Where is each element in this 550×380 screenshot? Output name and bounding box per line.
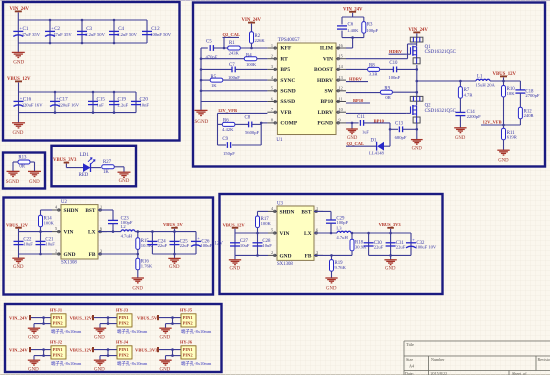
wire right end row2 — [135, 92, 137, 113]
svg-text:HDRV: HDRV — [389, 49, 403, 54]
svg-text:VBUS_12V: VBUS_12V — [70, 348, 93, 353]
svg-text:BP10: BP10 — [353, 98, 364, 103]
svg-text:22uF: 22uF — [396, 244, 406, 249]
svg-text:VBUS_3V3: VBUS_3V3 — [379, 222, 402, 227]
svg-text:1K: 1K — [103, 170, 109, 175]
wire VIN pin to Q1 drain — [346, 58, 408, 60]
svg-text:PIN1: PIN1 — [53, 347, 64, 352]
buck IC U3 SX1308 body — [277, 206, 314, 260]
svg-text:VBUS_5V: VBUS_5V — [163, 222, 184, 227]
wire LX segment (U3) — [314, 232, 337, 234]
pin 4 SHDN — [268, 210, 277, 212]
svg-text:PIN1: PIN1 — [183, 315, 194, 320]
block border: LED box — [52, 146, 137, 187]
wire R13 left lead — [13, 161, 18, 163]
wire to ground — [33, 356, 35, 360]
svg-text:端子孔-8x10mm: 端子孔-8x10mm — [117, 360, 148, 367]
svg-text:10K: 10K — [507, 91, 516, 96]
wire PIN1-PIN2 strap — [107, 318, 109, 324]
pin 10 LDRV — [336, 111, 346, 113]
resistor R18 30.9K — [351, 233, 353, 239]
svg-text:VBUS_12V: VBUS_12V — [223, 223, 246, 228]
wire R17 to VIN rail — [257, 228, 259, 233]
pin 6 SS/SD — [267, 101, 277, 103]
wire C21 drop — [40, 232, 42, 254]
wire VBUS right branch — [519, 81, 521, 90]
svg-text:R27: R27 — [103, 160, 112, 165]
svg-text:PIN2: PIN2 — [53, 321, 64, 326]
wire SGND pin segment — [201, 90, 267, 92]
svg-text:端子孔-8x10mm: 端子孔-8x10mm — [181, 328, 212, 335]
svg-text:PIN2: PIN2 — [119, 321, 130, 326]
pin 16 ILIM — [336, 47, 346, 49]
svg-text:2: 2 — [271, 250, 273, 255]
wire to ground — [165, 356, 167, 360]
ground (U3 out) — [384, 259, 396, 261]
pin 5 VIN — [268, 232, 277, 234]
wire R11 to GND — [503, 140, 505, 150]
wire PIN1-PIN2 strap — [172, 350, 174, 356]
ground (HY-J4) — [94, 359, 106, 361]
wire BP5 segment — [201, 68, 232, 70]
svg-text:C5: C5 — [206, 39, 212, 44]
wire FB segment (U3) — [314, 254, 352, 256]
wire SYNC segment — [201, 79, 210, 81]
pin 15 VIN — [336, 58, 346, 60]
wire Q2 source to GND — [416, 123, 418, 139]
svg-text:HY-J5: HY-J5 — [180, 308, 193, 313]
ground (R16) — [132, 277, 144, 279]
wire L1 to VBUS — [490, 80, 520, 82]
svg-text:11: 11 — [339, 96, 343, 101]
svg-text:8: 8 — [271, 118, 273, 123]
svg-text:L2: L2 — [121, 224, 127, 229]
svg-text:10uF: 10uF — [240, 243, 250, 248]
svg-text:5: 5 — [271, 86, 273, 91]
svg-text:HY-J3: HY-J3 — [116, 308, 129, 313]
resistor R6 4.42K — [222, 122, 235, 126]
resistor R12 240R — [518, 107, 522, 119]
wire PIN2 row — [34, 323, 51, 325]
wire R10 to FB node — [503, 97, 505, 125]
svg-text:VIN: VIN — [64, 230, 74, 236]
wire PIN1 row — [94, 317, 117, 319]
ground GND (R13) — [28, 170, 41, 172]
pin 3 FB — [314, 254, 323, 256]
svg-text:10uF: 10uF — [45, 241, 55, 246]
wire C18 to R12 — [519, 93, 521, 107]
wire BST segment (U2) — [98, 209, 113, 211]
svg-text:LL4148: LL4148 — [369, 151, 385, 156]
junction C30 — [367, 232, 370, 235]
svg-text:22uF: 22uF — [374, 244, 384, 249]
svg-text:4.42K: 4.42K — [222, 127, 234, 132]
svg-text:BST: BST — [85, 208, 96, 214]
svg-text:U3: U3 — [277, 201, 283, 206]
wire network to ILIM pin — [352, 38, 354, 48]
capacitor C31 22uF — [390, 233, 392, 255]
svg-text:C6: C6 — [348, 22, 354, 27]
wire PIN1-PIN2 strap — [107, 350, 109, 356]
header body HY-J6 — [181, 346, 196, 359]
svg-text:R9: R9 — [384, 86, 390, 91]
title block frame — [404, 341, 550, 375]
sheet bottom edge — [0, 374, 550, 376]
svg-text:SW: SW — [324, 89, 333, 95]
svg-text:5600pF: 5600pF — [245, 130, 260, 135]
pin 1 KFF — [267, 47, 277, 49]
wire L2 to output node — [135, 231, 138, 233]
svg-text:VIN: VIN — [280, 231, 290, 237]
wire to GND (U2 out) — [174, 254, 176, 258]
capacitor C5 470pF — [209, 45, 211, 51]
svg-text:C16: C16 — [23, 96, 32, 102]
ground (Q2/C13) — [411, 139, 423, 141]
wire LED to R27 — [91, 167, 102, 169]
wire C13 to Q2 source drop — [403, 128, 417, 130]
resistor R27 1K — [102, 165, 115, 169]
svg-text:SGND: SGND — [6, 180, 20, 185]
ground (HY-J1) — [28, 327, 40, 329]
wire PIN1 row — [31, 317, 51, 319]
header body HY-J3 — [117, 314, 132, 327]
wire to GND symbol (U3 input) — [234, 255, 236, 259]
svg-text:SYNC: SYNC — [280, 78, 295, 84]
pin 1 BST — [314, 210, 323, 212]
svg-text:30.9K: 30.9K — [355, 244, 367, 249]
wire COMP vertical — [260, 123, 262, 145]
wire SW pin segment — [346, 92, 380, 94]
capacitor C1 47uF 35V — [13, 30, 23, 32]
resistor R1 243K — [228, 46, 241, 50]
wire to GND symbol (U2 input) — [18, 254, 20, 258]
wire port to VIN rail (U3) — [234, 229, 236, 233]
svg-text:2.2uF 50V: 2.2uF 50V — [117, 32, 137, 37]
svg-text:VFB: VFB — [280, 110, 291, 116]
svg-text:3: 3 — [316, 250, 318, 255]
svg-text:R5: R5 — [211, 75, 217, 80]
block border: 3V3 buck box — [220, 194, 443, 294]
wire to ground — [33, 324, 35, 328]
wire bottom rail row2 — [19, 112, 137, 114]
wire PIN1-PIN2 strap — [43, 350, 45, 356]
block border: R13 ground-tie box — [3, 153, 45, 189]
svg-text:ILIM: ILIM — [320, 46, 334, 52]
capacitor C30 22uF — [368, 233, 370, 255]
svg-text:619R: 619R — [507, 135, 518, 140]
ground below row2 — [18, 113, 20, 123]
wire SHDN to R17 — [258, 210, 269, 212]
svg-text:PIN1: PIN1 — [119, 315, 130, 320]
svg-text:100nF: 100nF — [388, 75, 400, 80]
svg-text:GND: GND — [230, 267, 241, 272]
wire PIN1-PIN2 strap — [172, 318, 174, 324]
wire C22 drop — [18, 232, 20, 254]
svg-text:HDRV: HDRV — [317, 78, 333, 84]
wire ILIM network bottom — [341, 31, 343, 38]
wire VFB segment — [218, 112, 268, 114]
svg-text:COMP: COMP — [280, 121, 297, 127]
svg-text:3: 3 — [271, 64, 273, 69]
wire R13 right lead — [30, 161, 35, 163]
wire R27 to GND — [114, 166, 124, 168]
svg-text:LX: LX — [88, 230, 96, 236]
svg-text:TPS40057: TPS40057 — [278, 37, 300, 43]
svg-text:端子孔-8x10mm: 端子孔-8x10mm — [51, 328, 82, 335]
svg-text:BOOST: BOOST — [314, 67, 333, 73]
svg-text:C20: C20 — [140, 96, 149, 102]
svg-text:47uF 35V: 47uF 35V — [22, 32, 41, 37]
wire C27 drop — [234, 233, 236, 255]
capacitor C29 100pF — [326, 219, 336, 221]
wire SS/SD pin segment — [201, 101, 267, 103]
header body HY-J2 — [51, 346, 66, 359]
wire PIN2 row — [100, 355, 117, 357]
svg-text:12V: 12V — [215, 242, 224, 247]
svg-text:1: 1 — [316, 206, 318, 211]
svg-text:VIN_24V: VIN_24V — [9, 348, 28, 353]
capacitor C4 2.2uF 50V — [113, 20, 115, 43]
wire SHDN to R14 — [41, 209, 53, 211]
wire R19 to GND — [331, 271, 333, 277]
pin 2 GND — [52, 253, 61, 255]
svg-text:1: 1 — [100, 205, 102, 210]
pin 2 RT — [267, 58, 277, 60]
svg-text:Date:: Date: — [405, 371, 414, 375]
capacitor C25 22uF — [174, 232, 176, 254]
wire RT segment — [201, 58, 244, 60]
capacitor C27 10uF — [230, 242, 240, 244]
svg-text:Number: Number — [431, 357, 445, 362]
svg-text:226K: 226K — [255, 38, 266, 43]
svg-text:GND: GND — [13, 265, 24, 270]
svg-text:GND: GND — [94, 367, 105, 372]
wire C7 to BP5 pin — [235, 68, 267, 70]
junction C24 — [151, 230, 154, 233]
ground (C14) — [454, 127, 466, 129]
wire KFF segment bus to C5 — [201, 47, 208, 49]
resistor R9 0R — [380, 90, 392, 94]
resistor R19 9.76K — [331, 255, 333, 259]
svg-text:R6: R6 — [223, 119, 229, 124]
wire R12 to FB wire — [519, 119, 521, 125]
pin 5 VIN — [52, 231, 61, 233]
svg-text:SHDN: SHDN — [280, 209, 295, 215]
svg-text:GND: GND — [412, 147, 423, 152]
svg-text:9: 9 — [339, 118, 341, 123]
ground below row1 — [17, 43, 19, 52]
capacitor C3 2.2uF 50V — [81, 20, 83, 43]
capacitor C12 100nF 50V — [142, 30, 152, 32]
ground (LED box) — [118, 171, 131, 173]
svg-text:5: 5 — [271, 228, 273, 233]
ground (U3 input) — [229, 259, 241, 261]
svg-text:220uF 16V: 220uF 16V — [58, 103, 80, 108]
svg-text:4.7uH: 4.7uH — [336, 235, 348, 240]
svg-text:RED: RED — [79, 173, 89, 178]
svg-text:100K: 100K — [44, 220, 55, 225]
wire Q2_CAL stub down — [223, 37, 225, 48]
svg-text:Revision: Revision — [538, 357, 550, 362]
wire feedback bottom — [218, 144, 227, 146]
svg-text:LDRV: LDRV — [318, 110, 333, 116]
wire SW rail to L1 — [417, 80, 476, 82]
svg-text:3: 3 — [100, 249, 102, 254]
svg-text:GND: GND — [94, 335, 105, 340]
svg-text:C15: C15 — [97, 96, 106, 102]
ground (R11) — [497, 149, 509, 151]
svg-text:10uF: 10uF — [262, 243, 272, 248]
svg-text:端子孔-8x10mm: 端子孔-8x10mm — [51, 360, 82, 367]
pin 13 HDRV — [336, 79, 346, 81]
wire LDRV to Q2 gate — [346, 112, 406, 114]
capacitor C17 220uF 16V — [54, 92, 56, 113]
svg-text:R8: R8 — [369, 64, 375, 69]
wire VIN_24V to R2 — [251, 24, 253, 32]
op IC U1 TPS40057 body — [277, 43, 336, 135]
wire PIN2 row — [166, 355, 182, 357]
svg-text:100pF: 100pF — [336, 220, 348, 225]
wire GND rail (U3) — [235, 254, 268, 256]
ground SGND (box2) — [195, 109, 208, 111]
svg-text:VBUS_12V: VBUS_12V — [70, 316, 93, 321]
resistor R14 100K — [39, 215, 43, 227]
pin 12 SW — [336, 90, 346, 92]
svg-text:PGND: PGND — [317, 121, 333, 127]
svg-text:10.5K: 10.5K — [141, 243, 153, 248]
header body HY-J5 — [181, 314, 196, 327]
svg-text:1.76K: 1.76K — [141, 264, 153, 269]
svg-text:2: 2 — [55, 249, 57, 254]
capacitor C11 1uF — [359, 120, 361, 126]
wire top rail row2 — [19, 91, 137, 93]
svg-text:端子孔-8x10mm: 端子孔-8x10mm — [181, 360, 212, 367]
svg-text:100uF: 100uF — [200, 243, 212, 248]
capacitor C32 100uF 10V — [410, 233, 412, 255]
capacitor C6 — [337, 25, 347, 27]
resistor R2 226K — [250, 32, 254, 44]
svg-text:10uF: 10uF — [23, 241, 33, 246]
wire output GND rail (U3) — [369, 254, 411, 256]
pin 5 SGND — [267, 90, 277, 92]
wire VBUS_12V stub — [18, 82, 20, 92]
svg-text:GND: GND — [29, 180, 40, 185]
resistor R3 — [362, 22, 366, 34]
wire to C13 — [390, 128, 398, 130]
wire C14 to GND — [459, 116, 461, 128]
wire PIN2 row — [34, 355, 51, 357]
wire VIN_24V stub — [17, 12, 19, 20]
pin 6 LX — [314, 232, 323, 234]
svg-text:220uF 16V: 220uF 16V — [22, 103, 44, 108]
svg-text:Q2_CAL: Q2_CAL — [347, 141, 365, 146]
wire C29 to LX wire — [330, 223, 332, 233]
capacitor C7 100nF — [231, 67, 233, 73]
svg-text:RT: RT — [280, 56, 288, 62]
wire PIN2 row — [100, 323, 117, 325]
junction — [81, 19, 84, 22]
ground (HY-J5) — [159, 327, 171, 329]
svg-text:5: 5 — [55, 226, 57, 231]
wire R16 to GND — [137, 270, 139, 278]
svg-text:3.3R: 3.3R — [369, 72, 379, 77]
pin 8 COMP — [267, 122, 277, 124]
svg-text:12V_VFB: 12V_VFB — [483, 120, 502, 125]
pin 14 BOOST — [336, 68, 346, 70]
wire FB node — [481, 124, 520, 126]
wire bottom rail row1 — [18, 42, 147, 44]
svg-text:FB: FB — [305, 253, 312, 259]
wire VIN rail (U3) — [235, 232, 268, 234]
svg-text:100K: 100K — [261, 221, 272, 226]
resistor R16 1.76K — [137, 254, 139, 258]
wire C5 to R1 — [213, 47, 227, 49]
block border: input caps box — [3, 2, 180, 141]
svg-text:9.76K: 9.76K — [335, 265, 347, 270]
wire PIN1 row — [159, 349, 181, 351]
svg-text:Sheet of: Sheet of — [512, 371, 527, 375]
svg-text:1: 1 — [271, 43, 273, 48]
svg-text:GND: GND — [28, 335, 39, 340]
svg-text:1K: 1K — [211, 83, 217, 88]
svg-text:10nF: 10nF — [140, 103, 150, 108]
header body HY-J4 — [117, 346, 132, 359]
svg-text:R3: R3 — [367, 22, 373, 27]
svg-text:SX1308: SX1308 — [61, 260, 77, 265]
capacitor C22 10uF — [14, 240, 24, 242]
svg-text:15: 15 — [339, 54, 343, 59]
svg-text:240R: 240R — [524, 113, 535, 118]
resistor R7 4.7R — [459, 81, 461, 87]
capacitor C15 1uF — [92, 92, 94, 113]
svg-text:GND: GND — [385, 267, 396, 272]
svg-text:GND: GND — [498, 158, 509, 163]
svg-text:GND: GND — [455, 136, 466, 141]
resistor R11 619R — [503, 125, 505, 128]
pin 9 PGND — [336, 122, 346, 124]
capacitor C23 100pF — [108, 219, 118, 221]
svg-text:CSD16321Q5C: CSD16321Q5C — [425, 109, 457, 114]
svg-text:CSD16321Q5C: CSD16321Q5C — [425, 50, 457, 55]
svg-text:12: 12 — [339, 86, 343, 91]
junction — [113, 91, 116, 94]
ground (HY-J6) — [159, 359, 171, 361]
wire GND rail (U2) — [19, 253, 53, 255]
wire R5 to SYNC pin — [223, 79, 268, 81]
svg-text:150pF: 150pF — [223, 151, 235, 156]
wire LX segment (U2) — [98, 231, 121, 233]
resistor R8 3.3R — [368, 67, 380, 71]
svg-text:100pF: 100pF — [366, 28, 378, 33]
wire VIN_24V to Q1 drain pads — [416, 33, 418, 38]
wire FB segment (U2) — [98, 253, 138, 255]
svg-text:HY-J4: HY-J4 — [116, 340, 129, 345]
wire PIN1 row — [159, 317, 181, 319]
svg-text:PIN2: PIN2 — [183, 353, 194, 358]
wire PIN2 row — [166, 323, 182, 325]
wire HDRV stub to Q1 gate — [389, 53, 407, 55]
svg-text:FB: FB — [89, 252, 96, 258]
svg-text:C19: C19 — [118, 96, 127, 102]
svg-text:2.2uF 50V: 2.2uF 50V — [85, 32, 105, 37]
wire L3 to output node — [351, 232, 352, 234]
resistor R4 100K — [244, 57, 257, 61]
svg-text:GND: GND — [64, 252, 76, 258]
wire PIN1 row — [31, 349, 51, 351]
wire C10 to SW node — [397, 68, 417, 70]
svg-text:LX: LX — [304, 231, 312, 237]
svg-text:VIN: VIN — [323, 56, 333, 62]
